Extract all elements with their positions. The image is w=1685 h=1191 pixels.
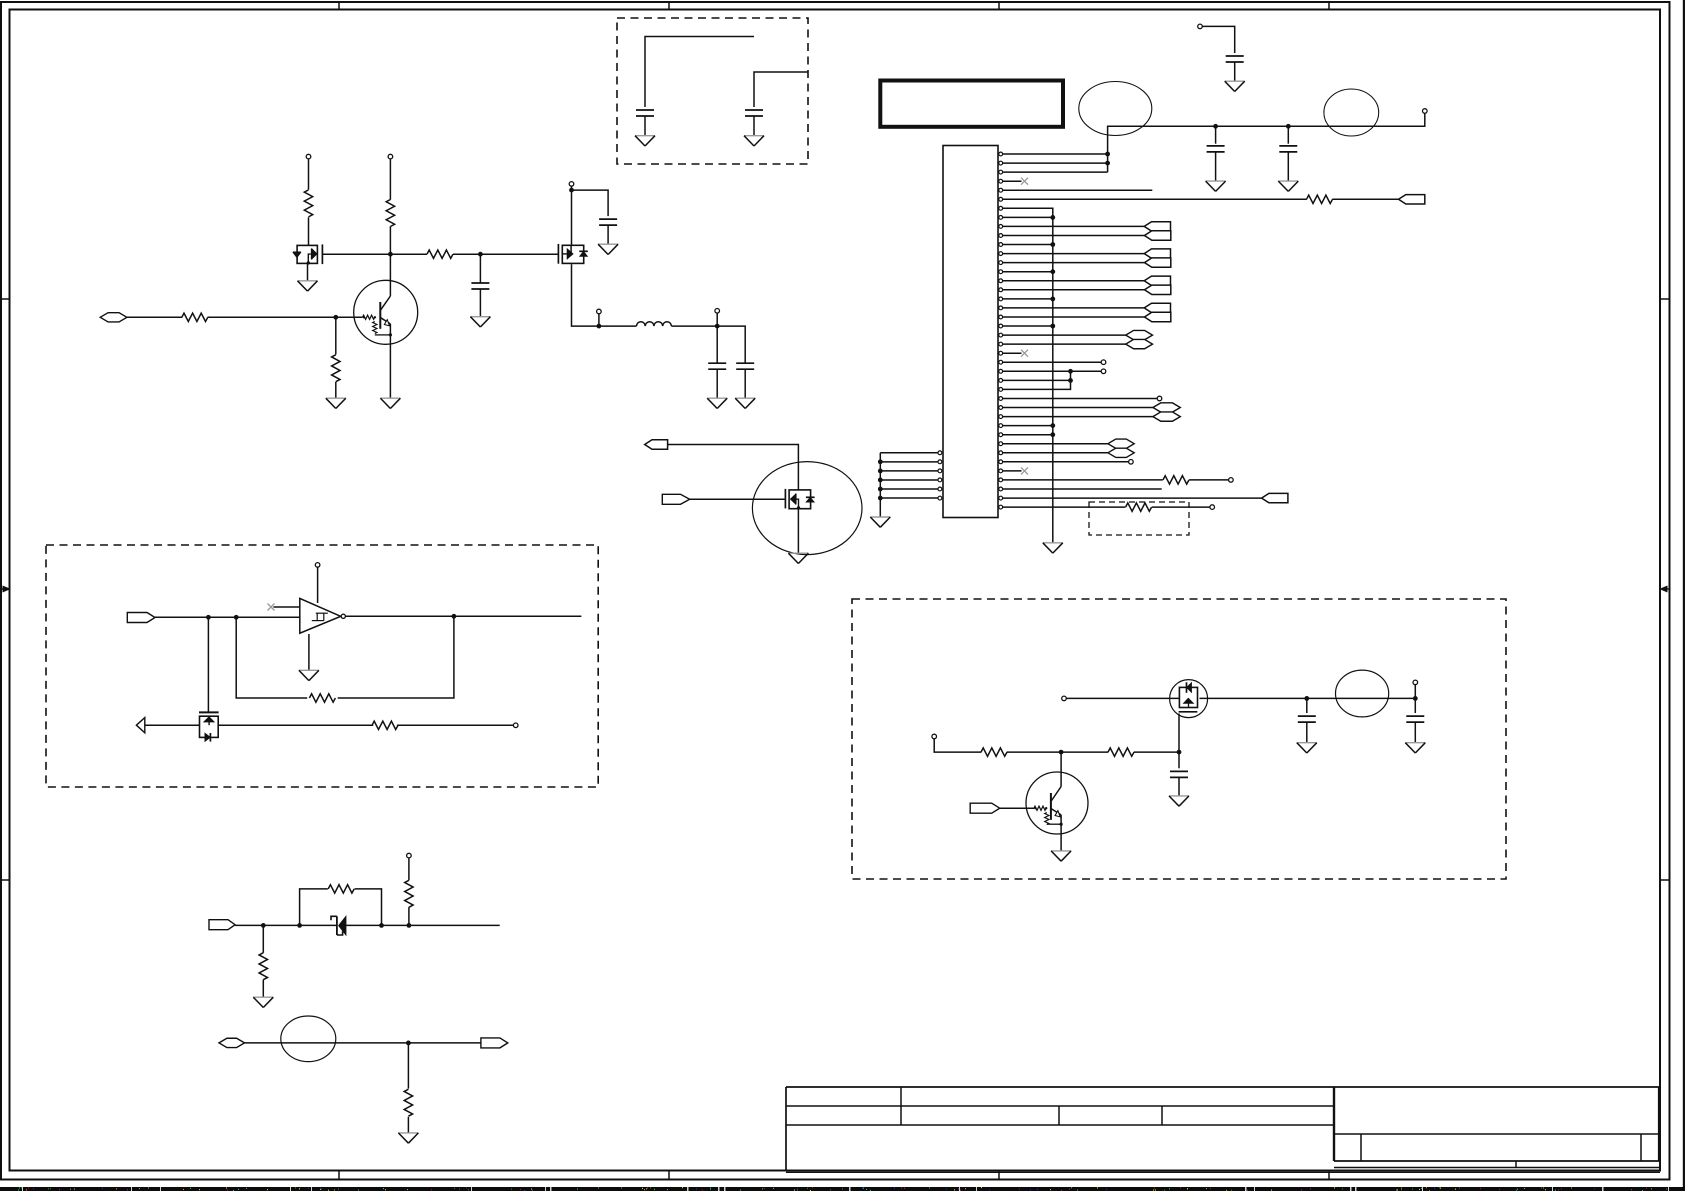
junction gate node2 (1177, 750, 1182, 755)
wire C8-gnd (716, 369, 718, 398)
wire pin31 (1003, 425, 1053, 427)
junction rail-C4 (1213, 124, 1218, 129)
port OUT2 triangle (136, 718, 144, 733)
wire C7-gnd (607, 225, 609, 244)
ferrite ellipse FB2 (1324, 89, 1379, 136)
title block (786, 1087, 1660, 1172)
terminal R10 (513, 723, 518, 728)
terminal R2 (1229, 478, 1234, 483)
wire Q2 emitter (1060, 815, 1062, 851)
capacitor C8 (708, 363, 726, 369)
wire U1 stub2 (273, 606, 299, 608)
ground M1 (298, 281, 318, 291)
wire pin15 (1003, 280, 1145, 282)
junction pin17 (1050, 297, 1055, 302)
resistor R9 (309, 694, 335, 702)
wire port-M5 (145, 724, 200, 726)
junction pin11 (1050, 242, 1055, 247)
ferrite ellipse FB1 (1079, 82, 1152, 136)
wire C1-gnd (644, 116, 646, 136)
capacitor C7 (599, 219, 617, 225)
capacitor C1 (636, 110, 654, 116)
port IN3 (209, 920, 235, 930)
resistor R13 (405, 880, 413, 907)
junction base node (333, 315, 338, 320)
ground bus (1043, 543, 1063, 553)
junction pw1 (1304, 696, 1309, 701)
capacitor C4 (1207, 146, 1225, 152)
transistor M1 (293, 244, 323, 264)
thick annotation rectangle (880, 81, 1063, 127)
wire R7-Q1 (389, 226, 391, 296)
resistor R7 (386, 200, 394, 227)
wire IN2-U1 (155, 616, 300, 618)
junction d4 (407, 923, 412, 928)
wire EN-M4 (1066, 697, 1181, 699)
port hex C1 (1108, 439, 1134, 448)
no-connect X pin4 (1021, 178, 1028, 185)
dashed box power group (852, 599, 1506, 879)
terminal SW (597, 309, 602, 314)
junction pin20 (1050, 324, 1055, 329)
wire C2-gnd (753, 116, 755, 136)
wire pin22 (1003, 343, 1126, 345)
wire port-M3 gate (690, 498, 785, 500)
wire feedback (236, 617, 307, 698)
resistor R2 (1163, 476, 1189, 484)
wire R6-M1 (308, 217, 310, 246)
port pair chevron 3a (1144, 276, 1170, 285)
capacitor C9 (736, 363, 754, 369)
port IN2 (127, 613, 155, 623)
wire d4 out (382, 924, 500, 926)
wire pin27 (1003, 371, 1071, 389)
terminal R13 (407, 853, 412, 858)
port hex C2 (1108, 448, 1134, 457)
wire R8-node (453, 253, 558, 255)
wire pin33 (1003, 443, 1108, 445)
resistor R15 (981, 748, 1007, 756)
junction out node (452, 614, 457, 619)
port pair chevron 4a (1144, 303, 1170, 312)
resistor R3 (1126, 503, 1152, 511)
ground R11 (253, 997, 273, 1007)
wire pin36 no-connect (1003, 470, 1022, 472)
wire pin4 no-connect (1003, 180, 1022, 182)
junction pin32 (1050, 432, 1055, 437)
wire pw1-pw2 (1307, 697, 1416, 699)
wire d1-R11 (262, 925, 264, 952)
terminal CTRL (932, 734, 937, 739)
port pair chevron 2a (1144, 249, 1170, 258)
wire pin10 (1003, 235, 1145, 237)
wire pin32 (1003, 434, 1053, 436)
wire R15-j (1007, 751, 1108, 753)
ground C9 (735, 398, 755, 408)
junction pin14 (1050, 269, 1055, 274)
wire pin35 (1003, 461, 1129, 463)
junctions left bus (878, 459, 883, 500)
wire base-R5 (335, 317, 337, 354)
wire pin40 (1003, 506, 1126, 508)
ground C11 (1405, 743, 1425, 753)
ferrite ellipse FB3 (281, 1016, 336, 1062)
wire C4 stub (1215, 126, 1217, 143)
port P1 (1399, 195, 1425, 204)
port pair chevron 1b (1145, 231, 1171, 240)
wire CTRL-R15 (934, 739, 981, 752)
wire pin20 (1003, 325, 1053, 327)
resistor R16 (1108, 748, 1134, 756)
wire pin24 (1003, 361, 1102, 363)
wire pin25 (1003, 370, 1102, 372)
wire U1 vcc (317, 567, 319, 603)
ground C10 (1297, 743, 1317, 753)
wire C6-gnd (479, 289, 481, 317)
junction pin2 (1105, 161, 1110, 166)
wire pin16 (1003, 289, 1145, 291)
terminal VCC1 (306, 154, 311, 159)
ground R5 (326, 398, 346, 408)
wire pin1 (1003, 153, 1108, 155)
wire pin23 no-connect (1003, 352, 1022, 354)
terminal EN (1062, 696, 1067, 701)
transistor M4 (1170, 680, 1208, 718)
ground C5 (1278, 181, 1298, 191)
ground C6 (470, 317, 490, 327)
no-connect X pin36 (1021, 467, 1028, 474)
junction pin25 (1068, 369, 1073, 374)
wire node-port (408, 1042, 481, 1044)
ground C4 (1206, 181, 1226, 191)
port pair chevron 2b (1145, 258, 1171, 267)
port hex B1 (1153, 403, 1180, 412)
resistor R10 (372, 721, 398, 729)
wire pin21 (1003, 334, 1126, 336)
wire pin8 (1003, 216, 1053, 218)
wire VIN-M2 (571, 186, 573, 245)
resistor R4 (182, 313, 208, 321)
transistor M3 (752, 462, 862, 555)
wire pin19 (1003, 316, 1145, 318)
wire M3 source (797, 509, 799, 553)
wire loop up (300, 889, 328, 926)
port hex A2 (1126, 339, 1153, 348)
wire left pin stubs (880, 453, 938, 498)
capacitor C12 (1170, 771, 1188, 777)
wire IN3-D1 (235, 924, 337, 926)
wire node-C6 (479, 254, 481, 283)
wire C5-gnd (1287, 152, 1289, 181)
wire M2 source (572, 264, 599, 326)
junction rail-C5 (1286, 124, 1291, 129)
port hex B2 (1153, 412, 1180, 421)
wire left gnd bus (879, 453, 881, 517)
terminal R3 (1210, 505, 1215, 510)
wire fb-M5 gate (207, 617, 209, 712)
ground Q2 (1051, 851, 1071, 861)
wire R2-term (1189, 479, 1229, 481)
ground C2 (744, 136, 764, 146)
resistor R11 (259, 953, 267, 980)
wire supply rail (1108, 113, 1425, 172)
wire pin37 (1003, 479, 1163, 481)
wire C5 stub (1287, 126, 1289, 143)
wire VCC1-R6 (308, 159, 310, 190)
terminal VCC2 (388, 154, 393, 159)
ground C8 (707, 398, 727, 408)
junction pin26 (1068, 378, 1073, 383)
wire pin38 (1003, 488, 1162, 490)
wire pin17 (1003, 298, 1053, 300)
terminal VOUT (715, 309, 720, 314)
capacitor C10 (1298, 716, 1316, 722)
capacitor C2 (745, 110, 763, 116)
resistor R1 (1307, 195, 1333, 203)
terminal pin24 (1101, 360, 1106, 365)
ground Q1 (380, 398, 400, 408)
wire pin5 (1003, 189, 1153, 191)
ground C7 (598, 244, 618, 254)
diode D1 (331, 916, 382, 935)
wire M1 gate (322, 253, 390, 255)
resistor R5 (332, 355, 340, 382)
junction SW node (597, 324, 602, 329)
wire VOUT stub (716, 313, 718, 326)
ground C3 (1225, 81, 1245, 91)
wire R10-term (397, 724, 514, 726)
wire pin11 (1003, 244, 1053, 246)
wire C3 top (1202, 26, 1234, 53)
wire pw1-C10 (1306, 698, 1308, 713)
wire R11-gnd (262, 980, 264, 998)
wire pw2-C11 (1414, 698, 1416, 713)
wire pin2 (1003, 162, 1108, 164)
resistor R14 (404, 1089, 412, 1116)
wire pin34 (1003, 452, 1108, 454)
port hex IN1 (100, 313, 127, 322)
ferrite ellipse FB4 (1336, 670, 1389, 717)
wire VCC2-R7 (389, 159, 391, 200)
wire SW stub (598, 314, 600, 326)
ground left bus (870, 517, 890, 527)
page right edge line (1683, 0, 1685, 1191)
connector J1 right pins (999, 152, 1003, 509)
junction fb1 (206, 615, 211, 620)
buffer U1 (300, 598, 346, 633)
connector J1 body (943, 146, 998, 518)
port hex A1 (1126, 330, 1153, 339)
port pair chevron 4b (1145, 312, 1171, 321)
wire loop down (355, 889, 382, 926)
terminal pin25 (1101, 369, 1106, 374)
ground U1 (299, 670, 319, 680)
wire C11-gnd (1414, 722, 1416, 743)
ground C1 (635, 136, 655, 146)
terminal VOUT2 (1413, 680, 1418, 685)
wire pin39 (1003, 497, 1262, 499)
wire IN1-R4 (127, 316, 182, 318)
terminal pin28 (1157, 396, 1162, 401)
junction pin8 (1050, 215, 1055, 220)
port pair chevron 3b (1145, 285, 1171, 294)
port pair chevron 1a (1144, 222, 1170, 231)
ground R14 (398, 1133, 418, 1143)
wire M1-gnd (307, 263, 309, 281)
port hex IN4 (219, 1038, 245, 1047)
port IN5 (970, 803, 1000, 813)
terminal U1 vcc (315, 563, 320, 568)
wire d4-R13 (408, 907, 410, 925)
port OUT3 (481, 1038, 508, 1048)
wire Q2 collector (1060, 752, 1062, 786)
wire Q1 emitter (389, 324, 391, 398)
wire R3-term (1152, 506, 1210, 508)
transistor M5 (199, 712, 219, 741)
wire node-R14 (407, 1043, 409, 1089)
wire port-M3 drain (667, 445, 798, 490)
wire pin9 (1003, 225, 1145, 227)
no-connect X U1 (268, 604, 275, 611)
wire pin12 (1003, 253, 1145, 255)
capacitor C6 (471, 283, 489, 289)
no-connect X pin23 (1021, 350, 1028, 357)
wire R5-gnd (335, 382, 337, 398)
wire C1 top (645, 37, 754, 108)
wire gate up (1178, 714, 1180, 753)
wire VOUT-C8 (716, 326, 718, 363)
dashed box bulk-cap group (617, 18, 808, 164)
junction ctrl node (1059, 750, 1064, 755)
wire M4-out (1200, 697, 1307, 699)
transistor M2 (558, 244, 587, 264)
capacitor C5 (1279, 146, 1297, 152)
ground C12 (1169, 796, 1189, 806)
connector J1 left pins (938, 451, 942, 500)
wire R14-gnd (407, 1117, 409, 1133)
wire pin28 (1003, 398, 1158, 400)
wire pin30 (1003, 416, 1153, 418)
wire C2 top (754, 72, 808, 107)
wire C9-gnd (744, 369, 746, 398)
wire R7-R8 (390, 253, 427, 255)
wire pin18 (1003, 307, 1145, 309)
wire gnd bus (1003, 208, 1053, 543)
terminal rail right (1423, 109, 1428, 114)
resistor R6 (304, 190, 312, 217)
junction d1 (261, 923, 266, 928)
right fold arrow (1661, 586, 1670, 592)
wire C12-gnd (1178, 777, 1180, 796)
transistor Q1 (354, 280, 418, 344)
wire gate-C12 (1178, 752, 1180, 768)
left fold arrow (1, 586, 10, 592)
junction RC node (478, 252, 483, 257)
resistor R12 (328, 885, 354, 893)
terminal pin35 (1129, 460, 1134, 465)
wire feedback2 (338, 616, 454, 698)
ground M3 (788, 553, 808, 563)
junction pin31 (1050, 423, 1055, 428)
wire pin14 (1003, 271, 1053, 273)
junction d2 (297, 923, 302, 928)
wire pin26 (1003, 379, 1071, 381)
junction pin1 (1105, 152, 1110, 157)
wire VOUT-C9 (717, 326, 745, 363)
junction gate node (388, 252, 393, 257)
wire IN5-Q2 (1000, 807, 1034, 809)
wire C3-gnd (1234, 62, 1236, 81)
capacitor C3 (1226, 56, 1244, 62)
resistor R8 (427, 250, 453, 258)
wire L1-out (671, 325, 717, 327)
wire M5-R10 (218, 724, 373, 726)
wire pin3 (1003, 171, 1108, 173)
wire VOUT2 stub (1414, 685, 1416, 699)
bottom microtext band (0, 1187, 1685, 1191)
wire SW-L1 (599, 325, 637, 327)
capacitor C11 (1406, 716, 1424, 722)
wire pin13 (1003, 262, 1145, 264)
wire C10-gnd (1306, 722, 1308, 743)
wire U1 out (345, 615, 581, 617)
terminal node top-right cap (1198, 24, 1203, 29)
wire IN4-FB3 (245, 1042, 409, 1044)
junction pw2 (1413, 696, 1418, 701)
port GATE-right (662, 494, 689, 504)
port OUT-left (645, 440, 668, 449)
dashed box R3 (1089, 502, 1189, 535)
dashed box buffer group (46, 545, 598, 787)
wire C4-gnd (1215, 152, 1217, 181)
wire pin29 (1003, 407, 1153, 409)
junction VIN node (569, 188, 574, 193)
wire R4-Q1 (208, 316, 363, 318)
junction VOUT node (715, 324, 720, 329)
junction fb3 node (406, 1041, 411, 1046)
terminal VIN (569, 182, 574, 187)
port P2 (1262, 493, 1288, 502)
transistor Q2 (1026, 772, 1088, 834)
wire R16-gate (1134, 751, 1179, 753)
junction d3 (379, 923, 384, 928)
inductor L1 (637, 322, 672, 326)
wire U1 gnd stub (308, 634, 310, 670)
wire pin6 (1003, 198, 1307, 200)
wire R13-term (408, 858, 410, 880)
junction fb2 (234, 615, 239, 620)
wire VIN-C7 (572, 190, 609, 216)
wire R1-port (1332, 198, 1398, 200)
